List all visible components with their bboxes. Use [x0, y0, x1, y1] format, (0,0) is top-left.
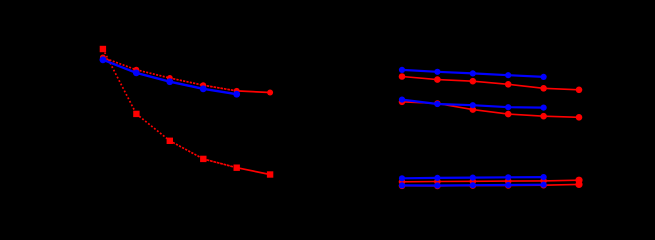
- left chart: red dotted series with square markers (steep): [100, 46, 274, 178]
- right chart: top blue series: [399, 67, 547, 80]
- right chart: middle blue series: [399, 97, 547, 111]
- right chart: bottom blue series 2: [399, 182, 547, 189]
- left chart: red dotted series with circle markers (upper): [100, 55, 273, 96]
- right chart: bottom blue series 1: [399, 174, 547, 181]
- right chart: middle red series: [399, 99, 583, 121]
- right chart: bottom red series 1: [399, 177, 583, 186]
- right chart: top red series: [399, 73, 583, 93]
- left chart: blue solid series with circle markers: [100, 56, 241, 97]
- right chart: bottom red series 2: [399, 181, 583, 189]
